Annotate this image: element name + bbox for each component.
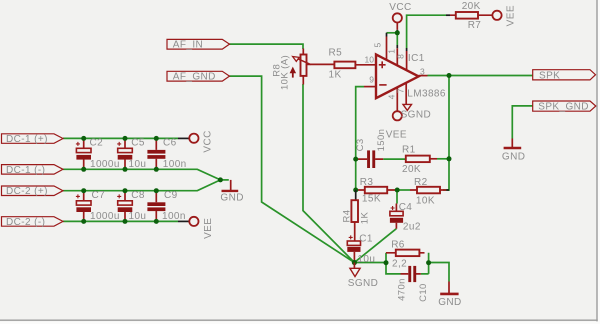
- junction SGND node: [352, 260, 357, 265]
- svg-text:IC1: IC1: [408, 53, 425, 64]
- potentiometer R8: [272, 49, 335, 91]
- wire SGND node to R6 C10: [354, 262, 386, 264]
- capacitor C10: [397, 266, 430, 302]
- svg-text:VCC: VCC: [389, 2, 411, 13]
- svg-text:VCC: VCC: [202, 130, 213, 152]
- junction C3 node: [353, 157, 358, 162]
- flag AF_GND: [167, 71, 230, 82]
- capacitor C5: [117, 138, 146, 170]
- op-amp IC1: [364, 33, 446, 111]
- wire VCC junction to pin1: [396, 33, 398, 45]
- wire R3 to R2 node: [397, 189, 410, 191]
- svg-text:C7: C7: [92, 190, 106, 201]
- svg-text:C1: C1: [359, 234, 373, 245]
- resistor R6: [386, 240, 425, 270]
- svg-text:R6: R6: [391, 240, 405, 251]
- svg-text:10: 10: [365, 54, 375, 64]
- junction R1 output node: [447, 156, 452, 161]
- svg-text:20K: 20K: [402, 164, 421, 175]
- svg-text:AF_GND: AF_GND: [173, 72, 216, 83]
- svg-text:10K: 10K: [416, 195, 435, 206]
- svg-text:SGND: SGND: [401, 110, 432, 121]
- svg-text:R2: R2: [414, 177, 428, 188]
- svg-text:R1: R1: [402, 145, 416, 156]
- capacitor C9: [147, 190, 185, 222]
- wire SPK_GND to GND: [512, 106, 532, 139]
- resistor R3: [356, 177, 398, 204]
- junction GND mid node: [218, 177, 223, 182]
- svg-text:1000u: 1000u: [90, 159, 120, 170]
- junction R6 right node: [426, 260, 431, 265]
- capacitor C8: [117, 190, 146, 222]
- resistor R4: [341, 190, 370, 241]
- flag DC-2 +: [2, 186, 64, 197]
- wire node to C4: [396, 190, 398, 204]
- wire GND stub mid: [220, 179, 228, 181]
- junction R2 C4 node: [395, 188, 400, 193]
- flag SPK_GND: [533, 101, 596, 113]
- svg-text:C2: C2: [90, 138, 104, 149]
- svg-text:VEE: VEE: [203, 218, 214, 239]
- capacitor C4: [390, 202, 421, 233]
- wire VCC junction to pin5: [387, 32, 398, 34]
- svg-text:SGND: SGND: [348, 278, 379, 289]
- svg-text:1K: 1K: [329, 70, 342, 81]
- svg-text:GND: GND: [502, 151, 525, 162]
- junction dots DC rails: [81, 136, 86, 141]
- sgnd symbol op-amp pin7: [401, 104, 432, 120]
- svg-text:7: 7: [395, 88, 405, 93]
- wire AF_IN flag to pot: [230, 44, 304, 49]
- svg-text:DC-1 (+): DC-1 (+): [6, 134, 48, 145]
- svg-text:C4: C4: [399, 202, 413, 213]
- svg-text:C9: C9: [164, 190, 178, 201]
- svg-text:10K (A): 10K (A): [280, 55, 291, 90]
- wire R7 to op-amp pin8: [407, 15, 446, 48]
- junction output node: [447, 73, 452, 78]
- svg-text:150n: 150n: [376, 129, 387, 152]
- svg-text:10u: 10u: [129, 159, 147, 170]
- resistor R2: [410, 177, 449, 206]
- wire R1 to output vertical: [437, 158, 449, 160]
- svg-text:1: 1: [386, 49, 396, 54]
- svg-text:R5: R5: [329, 47, 343, 58]
- wire C4 to SGND node: [355, 229, 397, 263]
- capacitor C1: [347, 234, 375, 265]
- svg-text:8: 8: [396, 54, 406, 59]
- wire C10 branch left: [386, 263, 401, 274]
- wire op-amp pin9 feedback vertical: [356, 87, 364, 190]
- svg-text:15K: 15K: [362, 193, 381, 204]
- svg-text:C6: C6: [163, 138, 177, 149]
- svg-text:DC-2 (+): DC-2 (+): [6, 186, 48, 197]
- svg-text:470n: 470n: [397, 278, 408, 301]
- supply VEE op-amp pin4: [386, 111, 407, 140]
- svg-text:C3: C3: [355, 138, 366, 151]
- supply VEE rail4: [178, 217, 214, 239]
- capacitor C3: [355, 129, 387, 168]
- svg-text:10u: 10u: [129, 211, 147, 222]
- ground GND at SPK_GND: [502, 139, 525, 163]
- wire DC-1+ rail: [63, 137, 178, 139]
- junction VCC node: [395, 30, 400, 35]
- ground GND right: [438, 282, 461, 309]
- resistor R1: [402, 145, 437, 176]
- svg-text:AF_IN: AF_IN: [173, 40, 203, 51]
- wire DC-2+ rail to GND: [63, 180, 220, 191]
- wire AF_GND flag to SGND node: [230, 76, 355, 262]
- svg-text:LM3886: LM3886: [407, 88, 446, 99]
- svg-text:2,2: 2,2: [392, 258, 407, 269]
- svg-text:DC-2 (-): DC-2 (-): [6, 217, 45, 228]
- flag SPK: [533, 70, 596, 82]
- wire output down to R2: [443, 76, 449, 191]
- wire C3 to R1: [383, 158, 405, 160]
- svg-text:GND: GND: [220, 193, 243, 204]
- svg-text:SPK_GND: SPK_GND: [538, 102, 589, 113]
- svg-text:5: 5: [372, 43, 382, 48]
- wire R6 branch left: [385, 253, 387, 263]
- capacitor C7: [76, 190, 120, 222]
- svg-text:4: 4: [387, 94, 397, 99]
- svg-text:C8: C8: [131, 190, 145, 201]
- svg-text:C10: C10: [418, 283, 429, 302]
- ground GND mid power: [220, 180, 243, 204]
- flag DC-1 +: [2, 134, 64, 145]
- sgnd symbol bottom: [348, 263, 379, 289]
- supply VCC op-amp: [389, 2, 411, 33]
- svg-text:2u2: 2u2: [403, 222, 421, 233]
- resistor R7: [446, 1, 492, 31]
- junction R6 left node: [384, 260, 389, 265]
- svg-text:9: 9: [369, 74, 374, 84]
- flag DC-2 -: [2, 217, 64, 228]
- svg-text:VEE: VEE: [386, 130, 407, 141]
- svg-text:DC-1 (-): DC-1 (-): [6, 165, 45, 176]
- wire pot bottom to SGND node: [303, 84, 354, 263]
- flag DC-1 -: [2, 165, 64, 176]
- wire DC-2- rail: [63, 220, 178, 222]
- svg-text:R3: R3: [360, 177, 374, 188]
- capacitor C2: [76, 138, 120, 170]
- svg-text:100n: 100n: [162, 211, 186, 222]
- supply VCC rail1: [178, 130, 213, 152]
- capacitor C6: [147, 138, 186, 170]
- svg-text:1000u: 1000u: [90, 211, 120, 222]
- svg-text:10u: 10u: [357, 254, 375, 265]
- svg-text:1K: 1K: [360, 212, 371, 225]
- svg-text:3: 3: [420, 67, 425, 77]
- svg-text:20K: 20K: [462, 1, 481, 12]
- wire op-amp output to SPK: [428, 75, 533, 77]
- svg-text:VEE: VEE: [506, 5, 517, 26]
- flag AF_IN: [167, 39, 230, 50]
- wire to right GND: [429, 263, 449, 282]
- svg-text:R7: R7: [468, 20, 482, 31]
- svg-text:SPK: SPK: [539, 70, 560, 81]
- supply VEE at R7: [492, 5, 516, 26]
- svg-text:100n: 100n: [163, 159, 187, 170]
- svg-text:GND: GND: [438, 297, 461, 308]
- resistor R5: [329, 47, 377, 80]
- junction R3 node: [353, 188, 358, 193]
- wire R6 C10 branch right: [421, 253, 429, 274]
- wire DC-1- rail to GND: [63, 169, 220, 180]
- svg-text:R4: R4: [341, 210, 352, 223]
- svg-text:C5: C5: [131, 138, 145, 149]
